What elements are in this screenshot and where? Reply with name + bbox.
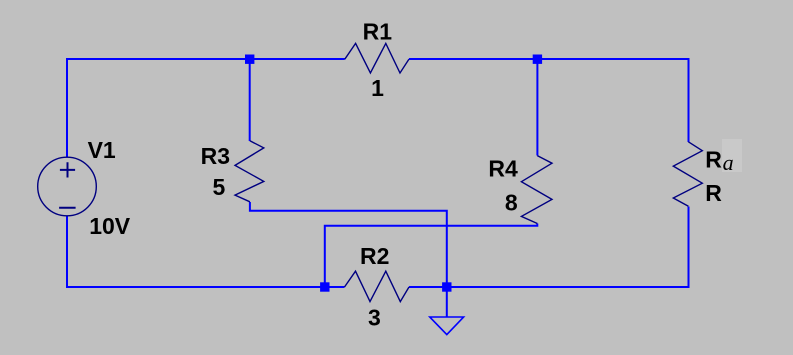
svg-text:1: 1 (371, 75, 384, 101)
svg-text:a: a (723, 150, 734, 175)
svg-text:R: R (705, 180, 722, 206)
svg-text:V1: V1 (88, 137, 116, 163)
svg-text:R1: R1 (363, 19, 393, 45)
svg-text:3: 3 (368, 305, 381, 331)
svg-text:5: 5 (213, 174, 226, 200)
svg-text:R3: R3 (201, 143, 230, 169)
svg-text:R2: R2 (360, 243, 389, 269)
svg-text:R4: R4 (488, 156, 518, 182)
svg-text:8: 8 (505, 190, 518, 216)
svg-text:10V: 10V (89, 213, 131, 239)
svg-text:R: R (705, 147, 722, 173)
